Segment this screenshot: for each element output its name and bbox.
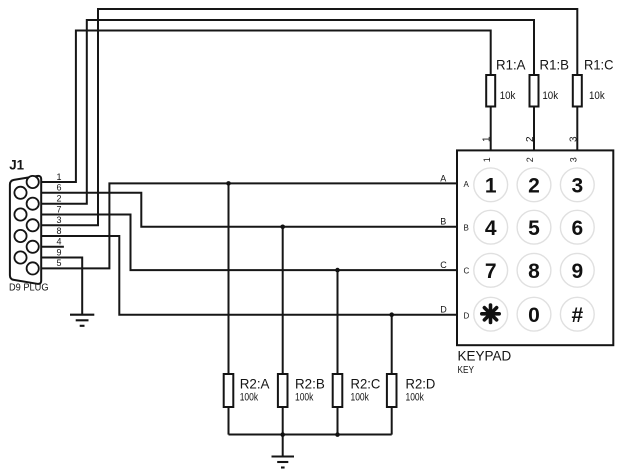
key circles: [474, 168, 594, 331]
svg-text:3: 3: [568, 136, 579, 142]
resistor R2:A: [224, 374, 234, 407]
wire R2:A top to row A: [228, 183, 230, 374]
svg-text:9: 9: [57, 247, 62, 257]
svg-text:2: 2: [57, 194, 62, 204]
svg-text:J1: J1: [9, 156, 24, 172]
wire pin7 to row C: [27, 215, 457, 271]
svg-text:8: 8: [57, 226, 62, 236]
svg-text:R2:B: R2:B: [295, 375, 325, 391]
wire pin8 to row D: [27, 236, 457, 315]
resistor R1:C: [573, 75, 582, 107]
svg-text:6: 6: [571, 217, 583, 240]
svg-text:C: C: [440, 260, 447, 270]
wire pin1 to column1 top: [39, 31, 491, 183]
svg-text:R2:C: R2:C: [351, 375, 381, 391]
svg-text:D9 PLUG: D9 PLUG: [9, 283, 49, 294]
wire ground rail: [229, 434, 392, 436]
svg-text:4: 4: [485, 217, 497, 240]
wire R2:B top to row B: [282, 227, 284, 374]
svg-text:0: 0: [528, 304, 540, 327]
svg-text:9: 9: [571, 260, 583, 283]
wire pin5 to row A: [39, 183, 457, 268]
svg-text:B: B: [464, 223, 469, 232]
svg-text:100k: 100k: [406, 391, 425, 403]
key * circle: [474, 297, 508, 331]
wire pin9 to ground: [27, 258, 83, 315]
resistor R2:D: [387, 374, 397, 407]
svg-text:R1:B: R1:B: [540, 57, 570, 73]
svg-text:100k: 100k: [351, 391, 370, 403]
svg-text:R1:A: R1:A: [496, 57, 526, 73]
junction node row A / R2:A: [226, 181, 231, 186]
wire R1:C bottom to keypad pin3: [576, 107, 578, 151]
svg-text:1: 1: [57, 172, 62, 182]
svg-text:B: B: [440, 217, 446, 227]
junction node row D / R2:D: [389, 312, 394, 317]
wire R2:C bottom to rail: [337, 407, 339, 435]
svg-text:3: 3: [569, 157, 579, 162]
pin 9 pad: [14, 251, 26, 263]
svg-text:D: D: [464, 311, 470, 320]
svg-text:#: #: [571, 304, 583, 327]
wire R1:A bottom to keypad pin1: [490, 107, 492, 151]
wire R2:D top to row D: [391, 315, 393, 374]
wire pin4 stub: [39, 246, 64, 248]
svg-text:2: 2: [528, 174, 540, 197]
wire R2:A bottom to rail: [228, 407, 230, 435]
pin 2 pad: [27, 198, 39, 210]
svg-text:10k: 10k: [500, 90, 516, 102]
wire R2:C top to row C: [337, 270, 339, 374]
wire R2:B bottom to rail: [282, 407, 284, 435]
junction node row B / R2:B: [280, 225, 285, 230]
ground symbol at bottom rail: [272, 457, 295, 468]
svg-text:R2:A: R2:A: [240, 375, 270, 391]
svg-text:7: 7: [485, 260, 497, 283]
pin 1 pad: [27, 176, 39, 188]
svg-text:6: 6: [57, 183, 62, 193]
svg-text:100k: 100k: [295, 391, 314, 403]
junction node row C / R2:C: [335, 268, 340, 273]
svg-text:5: 5: [528, 217, 540, 240]
svg-text:R1:C: R1:C: [584, 57, 614, 73]
junction node rail / R2:C: [335, 432, 340, 437]
key 4 circle: [474, 210, 508, 244]
svg-text:A: A: [464, 180, 470, 189]
resistor R2:B: [278, 374, 288, 407]
wire R1:B bottom to keypad pin2: [533, 107, 535, 151]
svg-text:4: 4: [57, 237, 62, 247]
pin 6 pad: [14, 187, 26, 199]
svg-text:5: 5: [57, 258, 62, 268]
svg-text:2: 2: [525, 157, 535, 162]
key 2 circle: [517, 168, 551, 202]
svg-text:7: 7: [57, 204, 62, 214]
svg-text:KEY: KEY: [458, 365, 475, 376]
key 0 circle: [517, 297, 551, 331]
svg-text:8: 8: [528, 260, 540, 283]
resistor R1:B: [530, 75, 539, 107]
key 1 circle: [474, 168, 508, 202]
key * star glyph: [482, 305, 499, 322]
svg-text:3: 3: [57, 215, 62, 225]
svg-text:R2:D: R2:D: [406, 375, 436, 391]
key # circle: [560, 297, 594, 331]
resistor R2:C: [333, 374, 343, 407]
svg-text:A: A: [440, 173, 446, 183]
pin 5 pad: [27, 262, 39, 274]
junction node rail / ground: [280, 432, 285, 437]
key 8 circle: [517, 253, 551, 287]
key 3 circle: [560, 168, 594, 202]
svg-text:KEYPAD: KEYPAD: [458, 348, 512, 364]
keypad body: [457, 150, 613, 345]
wire pin2 to column2 top: [39, 20, 534, 204]
svg-text:10k: 10k: [542, 90, 558, 102]
svg-text:100k: 100k: [240, 391, 259, 403]
svg-text:1: 1: [485, 174, 497, 197]
key 7 circle: [474, 253, 508, 287]
svg-text:2: 2: [525, 136, 536, 142]
pin 7 pad: [14, 208, 26, 220]
key 9 circle: [560, 253, 594, 287]
pin 8 pad: [14, 230, 26, 242]
pin 3 pad: [27, 219, 39, 231]
key 5 circle: [517, 210, 551, 244]
wire pin3 to column3 top: [39, 9, 578, 225]
resistor R1:A: [486, 75, 495, 107]
svg-text:D: D: [440, 305, 447, 315]
wire pin6 to row B: [27, 193, 457, 227]
svg-text:C: C: [464, 267, 470, 276]
pin 4 pad: [27, 241, 39, 253]
ground symbol under D9: [70, 315, 94, 326]
svg-text:10k: 10k: [589, 90, 605, 102]
wire R2:D bottom to rail: [391, 407, 393, 435]
key 6 circle: [560, 210, 594, 244]
svg-text:1: 1: [482, 157, 492, 162]
connector J1 D9 plug outline: [10, 176, 41, 284]
svg-text:3: 3: [571, 174, 583, 197]
wire rail to ground symbol: [282, 435, 284, 457]
svg-text:1: 1: [482, 136, 493, 142]
